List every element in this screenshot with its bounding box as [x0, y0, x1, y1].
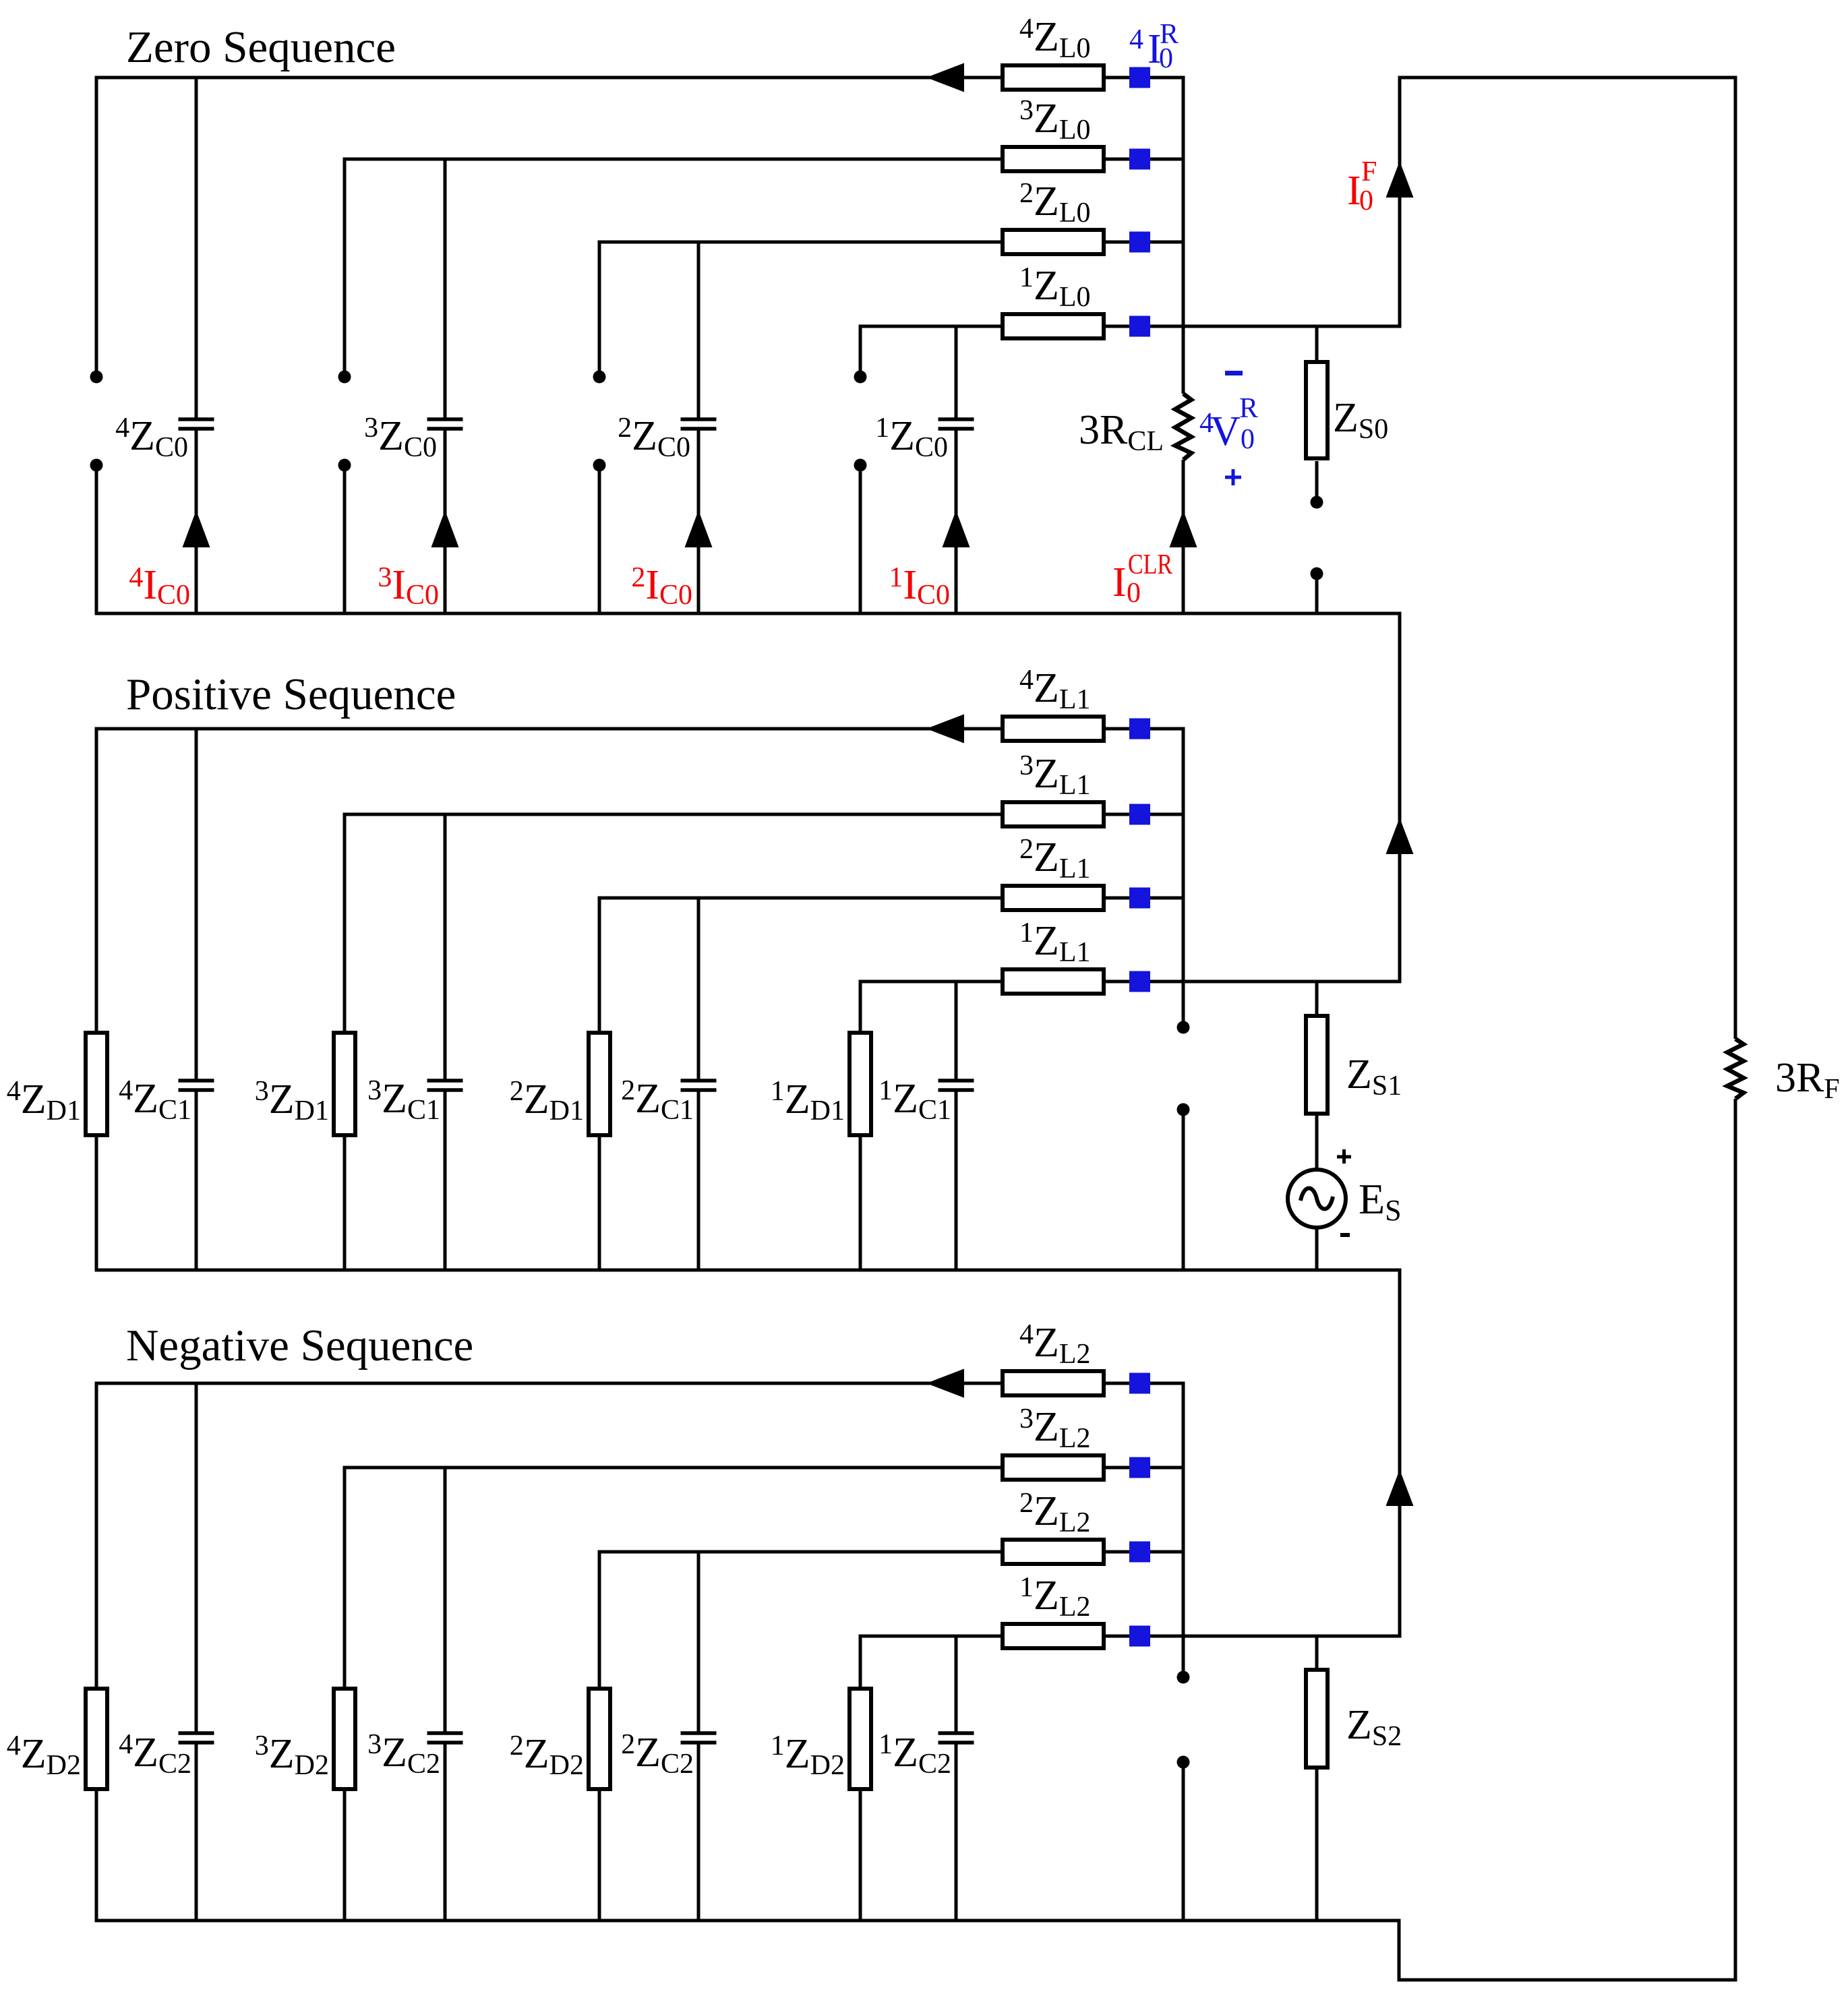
wire 1Z_D2 top lead: [859, 1636, 862, 1687]
wire tap 2Z_L1 to bus: [1150, 897, 1183, 900]
svg-text:1ZD1: 1ZD1: [771, 1076, 845, 1126]
svg-text:3ZL2: 3ZL2: [1019, 1404, 1091, 1454]
wire capacitor 2Z_C2 top lead: [697, 1552, 701, 1732]
node tap square 3Z_L2 (blue): [1129, 1457, 1150, 1478]
node tap square 2Z_L0 (blue): [1129, 232, 1150, 253]
resistor 3Z_D1: [334, 1033, 355, 1135]
resistor 2Z_D1: [589, 1033, 610, 1135]
wire switch 3 lower segment: [343, 471, 347, 613]
wire tap 4Z_L0 to bus: [1150, 76, 1183, 80]
wire negative sequence bottom bus: [95, 1919, 1401, 1923]
wire to zero bus below switch: [1315, 580, 1319, 613]
wire negative bus drop to bottom: [1398, 1921, 1401, 1980]
wire E_S to positive bus: [1315, 1228, 1319, 1270]
wire capacitor 3Z_C2 bottom lead: [444, 1744, 447, 1921]
node switch 1 top contact dot: [854, 371, 867, 384]
wire switch 1 upper segment: [859, 326, 862, 371]
svg-text:1ZC1: 1ZC1: [878, 1075, 951, 1126]
wire 4Z_L1 to tap square: [1106, 727, 1129, 731]
wire zero sequence bottom bus: [95, 612, 1402, 615]
resistor 4Z_L2: [1003, 1371, 1104, 1395]
wire bottom return: [1398, 1979, 1737, 1982]
node tap square 1Z_L1 (blue): [1129, 971, 1150, 992]
wire Positive Sequence tier 4 horizontal: [95, 727, 1001, 731]
wire capacitor 3Z_C1 top lead: [444, 814, 447, 1079]
wire positive sequence bottom bus: [95, 1269, 1402, 1272]
svg-text:2ZC0: 2ZC0: [618, 413, 690, 463]
wire receiving bus (zero seq): [1182, 76, 1185, 394]
node receiving-bus switch top dot: [1177, 1021, 1190, 1034]
wire capacitor 4Z_C2 bottom lead: [195, 1744, 198, 1921]
svg-text:1ZL1: 1ZL1: [1019, 917, 1091, 968]
wire 1Z_L1 to tap square: [1106, 980, 1129, 984]
wire 3Z_D2 bottom lead: [343, 1791, 347, 1921]
svg-text:3RCL: 3RCL: [1079, 407, 1164, 457]
resistor Z_S0: [1306, 362, 1328, 458]
svg-text:Negative Sequence: Negative Sequence: [126, 1321, 473, 1370]
wire receiving bus lower segment: [1182, 1116, 1185, 1270]
resistor 3Z_D2: [334, 1689, 355, 1789]
wire 2Z_D1 top lead: [598, 898, 601, 1031]
node tap square 4Z_L0 (blue): [1129, 67, 1150, 88]
node tap square 2Z_L2 (blue): [1129, 1542, 1150, 1563]
node polarity minus of 4V0R (blue): [1225, 371, 1243, 375]
resistor 3Z_L2: [1003, 1455, 1104, 1480]
svg-text:F: F: [1361, 156, 1377, 187]
node fault branch arrow (positive-negative link): [1386, 1470, 1414, 1506]
node charging current arrow 4I_C0: [183, 510, 210, 547]
resistor Z_S2: [1306, 1670, 1328, 1768]
wire switch 3 upper segment: [343, 159, 347, 371]
wire 2Z_D2 bottom lead: [598, 1791, 601, 1921]
wire capacitor 1Z_C1 bottom lead: [955, 1091, 958, 1270]
wire tap 3Z_L0 to bus: [1150, 158, 1183, 161]
resistor 4Z_L1: [1003, 717, 1104, 741]
svg-text:CLR: CLR: [1128, 549, 1172, 580]
resistor 3Z_L1: [1003, 802, 1104, 826]
node polarity plus of 4V0R (blue): [1225, 469, 1241, 485]
svg-text:2ZC2: 2ZC2: [621, 1729, 694, 1780]
node current arrow into Negative Sequence tier 4: [926, 1369, 964, 1398]
svg-text:4ZL1: 4ZL1: [1019, 665, 1091, 715]
node switch 4 top contact dot: [90, 371, 103, 384]
capacitor 2Z_C0: [681, 419, 717, 429]
wire capacitor 1Z_C2 bottom lead: [955, 1744, 958, 1921]
wire 2Z_D1 bottom lead: [598, 1137, 601, 1270]
wire Negative Sequence tier 1 horizontal: [859, 1635, 1001, 1638]
svg-text:3IC0: 3IC0: [378, 562, 439, 611]
svg-text:1ZD2: 1ZD2: [771, 1730, 845, 1781]
resistor 1Z_L2: [1003, 1624, 1104, 1648]
svg-text:4ZD1: 4ZD1: [7, 1076, 81, 1126]
wire Zero Sequence tier 1 horizontal: [859, 325, 1001, 328]
resistor 2Z_D2: [589, 1689, 610, 1789]
wire tap 1Z_L2 to fault branch: [1150, 1635, 1402, 1638]
resistor 4Z_D2: [86, 1689, 107, 1789]
wire capacitor 3Z_C0 top lead: [444, 159, 447, 418]
wire capacitor 4Z_C0 bottom lead: [195, 430, 198, 613]
wire 4Z_D1 bottom lead: [95, 1137, 98, 1270]
svg-text:ES: ES: [1359, 1175, 1402, 1227]
capacitor 1Z_C0: [938, 419, 974, 429]
wire 2Z_D2 top lead: [598, 1552, 601, 1687]
wire 2Z_L1 to tap square: [1106, 897, 1129, 900]
svg-text:1ZL0: 1ZL0: [1019, 262, 1091, 313]
wire capacitor 1Z_C0 bottom lead: [955, 430, 958, 613]
wire Positive Sequence tier 1 horizontal: [859, 980, 1001, 984]
wire 3Z_L1 to tap square: [1106, 813, 1129, 816]
node switch 3 bottom contact dot: [338, 459, 351, 472]
wire 1Z_D1 top lead: [859, 982, 862, 1031]
wire capacitor 2Z_C0 top lead: [697, 242, 701, 418]
svg-text:3ZD2: 3ZD2: [255, 1730, 329, 1781]
wire capacitor 4Z_C1 top lead: [195, 729, 198, 1079]
wire top return to fault branch: [1398, 76, 1737, 80]
svg-text:0: 0: [1127, 578, 1141, 609]
svg-text:R: R: [1239, 393, 1258, 424]
resistor 1Z_D2: [850, 1689, 871, 1789]
resistor 1Z_D1: [850, 1033, 871, 1135]
node charging current arrow 3I_C0: [431, 510, 459, 547]
svg-text:2ZD2: 2ZD2: [510, 1730, 584, 1781]
wire capacitor 2Z_C1 bottom lead: [697, 1091, 701, 1270]
wire capacitor 4Z_C1 bottom lead: [195, 1091, 198, 1270]
wire tap 1Z_L0 to fault branch: [1150, 325, 1402, 328]
svg-text:2ZL2: 2ZL2: [1019, 1488, 1091, 1538]
node tap square 3Z_L1 (blue): [1129, 804, 1150, 825]
voltage source E_S: [1288, 1170, 1346, 1228]
svg-text:1ZC2: 1ZC2: [878, 1729, 951, 1780]
node current arrow into Positive Sequence tier 4: [926, 715, 964, 744]
capacitor 2Z_C2: [681, 1733, 717, 1743]
node tap square 1Z_L0 (blue): [1129, 316, 1150, 337]
svg-text:2ZD1: 2ZD1: [510, 1076, 584, 1126]
svg-text:I: I: [1112, 560, 1127, 605]
wire Positive Sequence tier 3 horizontal: [343, 813, 1001, 816]
wire tap 1Z_L1 to fault branch: [1150, 980, 1402, 984]
svg-text:0: 0: [1159, 43, 1173, 74]
svg-text:3ZD1: 3ZD1: [255, 1076, 329, 1126]
wire switch 2 lower segment: [598, 471, 601, 613]
capacitor 4Z_C0: [179, 419, 214, 429]
wire 4Z_D2 top lead: [95, 1383, 98, 1687]
wire capacitor 4Z_C0 top lead: [195, 78, 198, 418]
svg-text:3RF: 3RF: [1775, 1055, 1840, 1105]
wire tap 2Z_L2 to bus: [1150, 1550, 1183, 1554]
wire tap 3Z_L2 to bus: [1150, 1466, 1183, 1470]
svg-text:4ZC1: 4ZC1: [119, 1075, 191, 1126]
svg-text:3ZC0: 3ZC0: [364, 413, 437, 463]
wire capacitor 3Z_C1 bottom lead: [444, 1091, 447, 1270]
wire 3R_CL to zero bus: [1182, 460, 1185, 613]
wire fault branch zero seq (I0_F): [1398, 78, 1402, 326]
node switch 2 top contact dot: [593, 371, 606, 384]
wire 3Z_D2 top lead: [343, 1468, 347, 1687]
svg-text:ZS1: ZS1: [1346, 1052, 1402, 1101]
node tap square 4Z_L1 (blue): [1129, 719, 1150, 740]
node receiving-bus switch bottom dot: [1177, 1756, 1190, 1769]
node switch 1 bottom contact dot: [854, 459, 867, 472]
wire right return bus lower: [1734, 1099, 1737, 1980]
svg-text:4ZL2: 4ZL2: [1019, 1319, 1091, 1370]
node receiving-bus switch top dot: [1177, 1671, 1190, 1684]
wire tap 2Z_L0 to bus: [1150, 241, 1183, 244]
svg-text:3ZC2: 3ZC2: [367, 1729, 440, 1780]
capacitor 4Z_C1: [179, 1081, 214, 1090]
wire Z_S2 top lead: [1315, 1636, 1319, 1668]
wire Z_S1 top lead: [1315, 982, 1319, 1014]
wire Zero Sequence tier 4 horizontal: [95, 76, 1001, 80]
svg-text:4ZD2: 4ZD2: [7, 1730, 81, 1781]
svg-text:2ZL1: 2ZL1: [1019, 834, 1091, 884]
resistor 2Z_L2: [1003, 1540, 1104, 1564]
wire fault branch zero-to-positive: [1398, 613, 1402, 982]
wire switch 4 upper segment: [95, 78, 98, 371]
svg-text:ZS0: ZS0: [1333, 395, 1388, 445]
wire 4Z_L2 to tap square: [1106, 1382, 1129, 1385]
wire 3Z_D1 bottom lead: [343, 1137, 347, 1270]
wire switch 1 lower segment: [859, 471, 862, 613]
svg-text:ZS2: ZS2: [1346, 1702, 1402, 1752]
resistor 1Z_L0: [1003, 314, 1104, 338]
wire Negative Sequence tier 3 horizontal: [343, 1466, 1001, 1470]
svg-text:4ZL0: 4ZL0: [1019, 13, 1091, 64]
wire capacitor 1Z_C2 top lead: [955, 1636, 958, 1732]
svg-text:1ZL2: 1ZL2: [1019, 1572, 1091, 1623]
svg-text:3ZC1: 3ZC1: [367, 1075, 440, 1126]
node switch 4 bottom contact dot: [90, 459, 103, 472]
wire tap 4Z_L2 to bus: [1150, 1382, 1183, 1385]
svg-text:3ZL1: 3ZL1: [1019, 750, 1091, 801]
wire capacitor 2Z_C0 bottom lead: [697, 430, 701, 613]
wire capacitor 1Z_C1 top lead: [955, 982, 958, 1079]
capacitor 2Z_C1: [681, 1081, 717, 1090]
wire capacitor 1Z_C0 top lead: [955, 326, 958, 418]
wire 1Z_L2 to tap square: [1106, 1635, 1129, 1638]
wire Positive Sequence tier 2 horizontal: [598, 897, 1001, 900]
node switch 3 top contact dot: [338, 371, 351, 384]
wire 2Z_L2 to tap square: [1106, 1550, 1129, 1554]
wire 1Z_D1 bottom lead: [859, 1137, 862, 1270]
node source E_S polarity minus: [1340, 1233, 1350, 1237]
wire Z_S2 to negative bus: [1315, 1770, 1319, 1921]
node receiving-bus switch bottom dot: [1177, 1104, 1190, 1116]
resistor 4Z_D1: [86, 1033, 107, 1135]
svg-text:V: V: [1210, 409, 1241, 454]
resistor 2Z_L1: [1003, 886, 1104, 910]
wire Zero Sequence tier 3 horizontal: [343, 158, 1001, 161]
svg-text:4ZC2: 4ZC2: [119, 1729, 191, 1780]
svg-text:2IC0: 2IC0: [631, 562, 692, 611]
node charging current arrow 1I_C0: [943, 510, 970, 547]
svg-text:2ZL0: 2ZL0: [1019, 178, 1091, 229]
svg-text:1ZC0: 1ZC0: [875, 413, 948, 463]
wire right return bus upper: [1734, 78, 1737, 1039]
capacitor 3Z_C0: [427, 419, 463, 429]
node source E_S polarity plus: [1337, 1149, 1351, 1164]
resistor 3R_F (zigzag): [1727, 1039, 1743, 1099]
wire Zero Sequence tier 2 horizontal: [598, 241, 1001, 244]
node source switch top dot (zero): [1311, 496, 1323, 509]
wire 2Z_L0 to tap square: [1106, 241, 1129, 244]
wire capacitor 2Z_C2 bottom lead: [697, 1744, 701, 1921]
svg-text:1IC0: 1IC0: [889, 562, 950, 611]
node fault branch arrow (zero-positive link): [1386, 818, 1414, 854]
wire Z_S0 top lead: [1315, 326, 1319, 360]
node tap square 1Z_L2 (blue): [1129, 1626, 1150, 1647]
wire fault branch positive-to-negative: [1398, 1270, 1402, 1636]
wire 4Z_L0 to tap square: [1106, 76, 1129, 80]
wire 3Z_L0 to tap square: [1106, 158, 1129, 161]
wire 1Z_D2 bottom lead: [859, 1791, 862, 1921]
resistor 1Z_L1: [1003, 969, 1104, 994]
svg-text:3ZL0: 3ZL0: [1019, 95, 1091, 146]
node fault current arrow I0_F: [1386, 161, 1414, 198]
wire capacitor 2Z_C1 top lead: [697, 898, 701, 1079]
node current arrow into Zero Sequence tier 4: [926, 63, 964, 92]
node tap square 4Z_L2 (blue): [1129, 1373, 1150, 1394]
svg-text:Zero Sequence: Zero Sequence: [126, 22, 396, 72]
wire receiving bus (negative seq): [1182, 1382, 1185, 1672]
wire capacitor 4Z_C2 top lead: [195, 1383, 198, 1732]
svg-text:4: 4: [1129, 24, 1143, 55]
wire Z_S1 to source E_S: [1315, 1116, 1319, 1170]
wire tap 4Z_L1 to bus: [1150, 727, 1183, 731]
node tap square 3Z_L0 (blue): [1129, 149, 1150, 170]
node current arrow I0_CLR: [1170, 510, 1197, 547]
svg-text:2ZC1: 2ZC1: [621, 1075, 694, 1126]
capacitor 4Z_C2: [179, 1733, 214, 1743]
wire tap 3Z_L1 to bus: [1150, 813, 1183, 816]
wire switch 2 upper segment: [598, 242, 601, 371]
wire 3Z_L2 to tap square: [1106, 1466, 1129, 1470]
svg-text:4ZC0: 4ZC0: [115, 413, 188, 463]
wire capacitor 3Z_C2 top lead: [444, 1468, 447, 1732]
node switch 2 bottom contact dot: [593, 459, 606, 472]
svg-text:4IC0: 4IC0: [129, 562, 190, 611]
node source switch bottom dot (zero): [1311, 568, 1323, 580]
wire switch 4 lower segment: [95, 471, 98, 613]
wire Z_S0 bottom lead: [1315, 461, 1319, 496]
wire 1Z_L0 to tap square: [1106, 325, 1129, 328]
wire receiving bus lower segment: [1182, 1768, 1185, 1921]
capacitor 3Z_C2: [427, 1733, 463, 1743]
wire 4Z_D1 top lead: [95, 729, 98, 1031]
resistor 3R_CL (zigzag): [1175, 394, 1191, 460]
wire 4Z_D2 bottom lead: [95, 1791, 98, 1921]
svg-text:0: 0: [1241, 424, 1255, 455]
svg-text:0: 0: [1359, 185, 1373, 216]
wire 3Z_D1 top lead: [343, 814, 347, 1031]
wire capacitor 3Z_C0 bottom lead: [444, 430, 447, 613]
capacitor 3Z_C1: [427, 1081, 463, 1090]
node charging current arrow 2I_C0: [685, 510, 713, 547]
wire receiving bus (positive seq): [1182, 727, 1185, 1022]
resistor 3Z_L0: [1003, 147, 1104, 171]
capacitor 1Z_C1: [938, 1081, 974, 1090]
svg-text:Positive Sequence: Positive Sequence: [126, 669, 456, 719]
node tap square 2Z_L1 (blue): [1129, 888, 1150, 909]
wire Negative Sequence tier 4 horizontal: [95, 1382, 1001, 1385]
resistor Z_S1: [1306, 1016, 1328, 1114]
resistor 4Z_L0: [1003, 65, 1104, 90]
wire Negative Sequence tier 2 horizontal: [598, 1550, 1001, 1554]
capacitor 1Z_C2: [938, 1733, 974, 1743]
resistor 2Z_L0: [1003, 230, 1104, 254]
